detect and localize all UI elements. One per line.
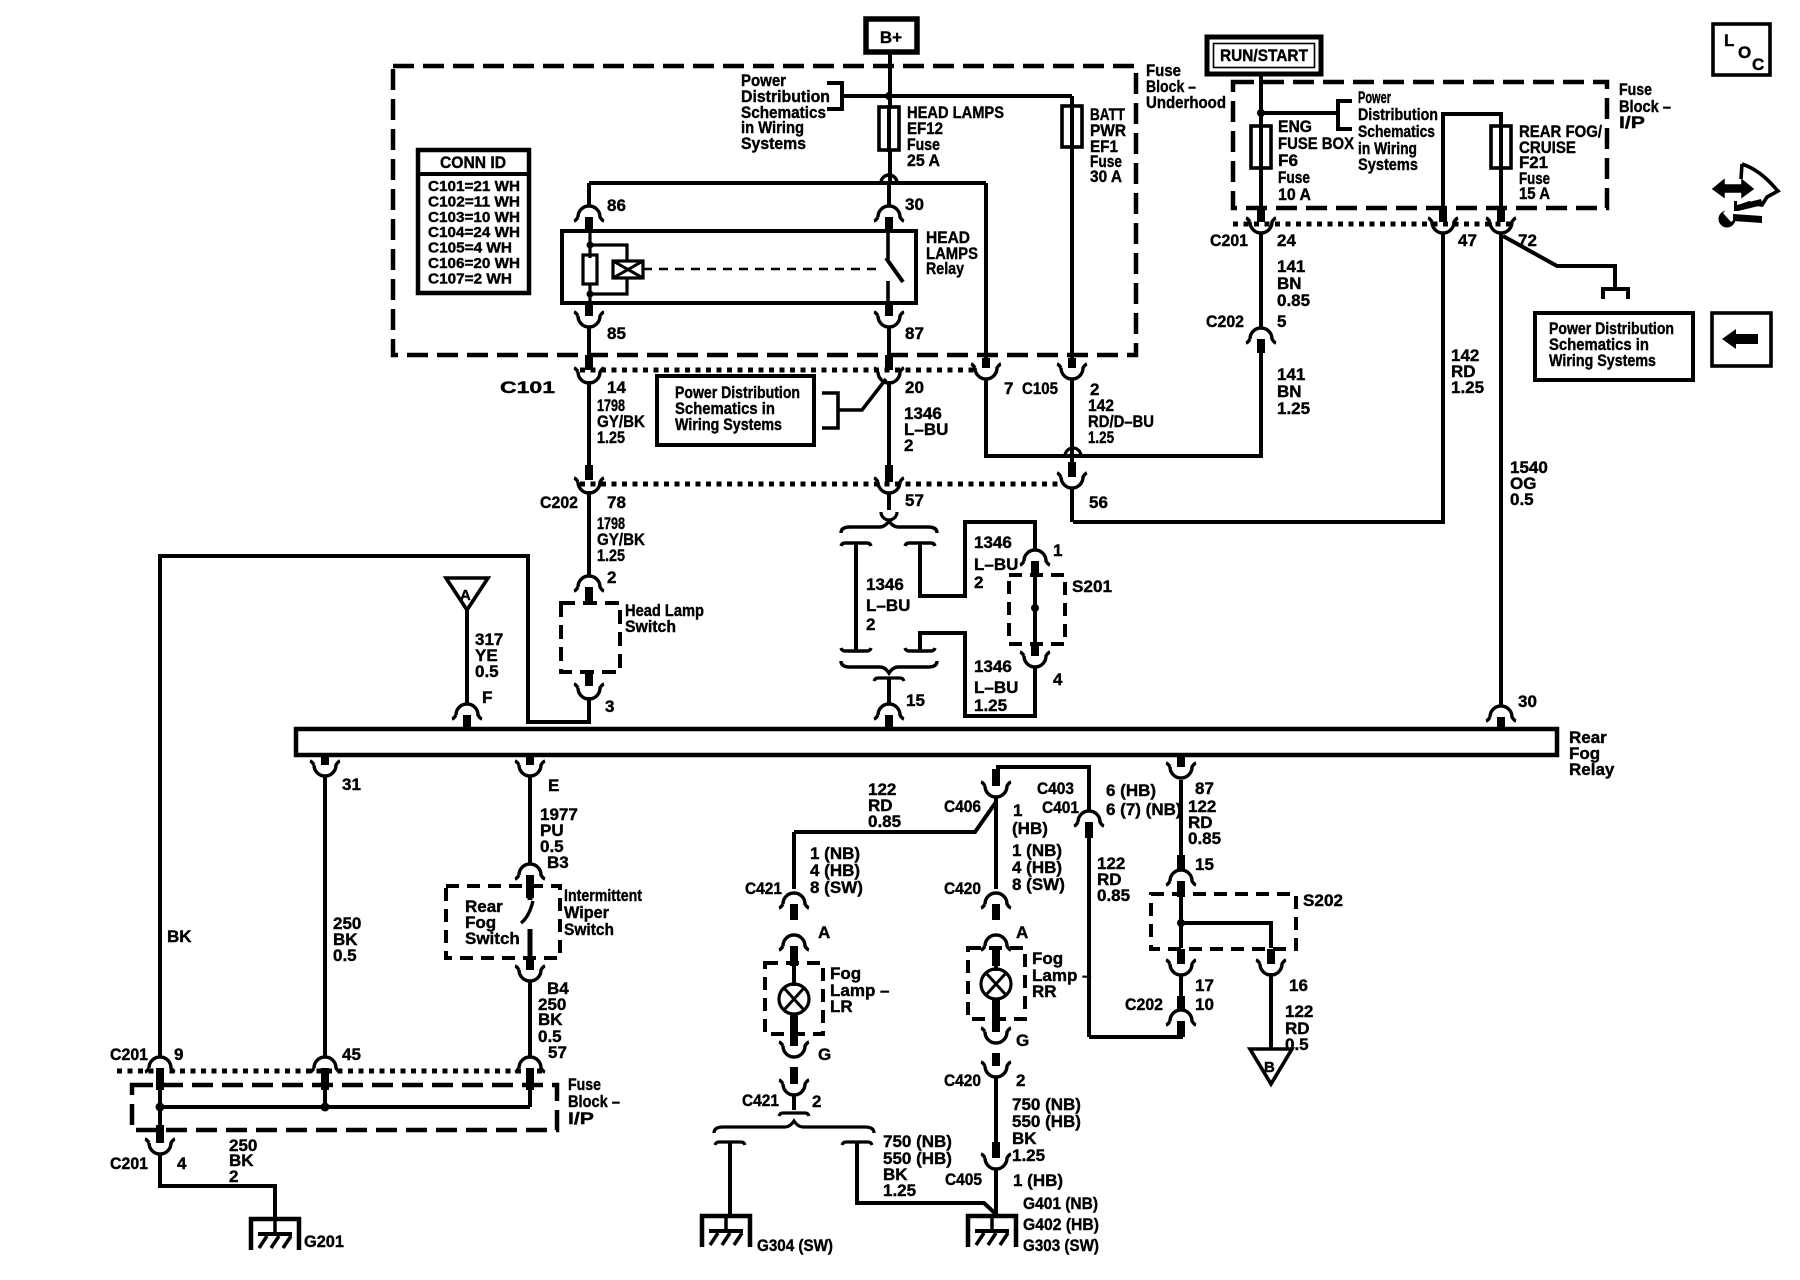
- I/P internal bus wire: [160, 1105, 530, 1109]
- junction dot B+ feed: [885, 92, 893, 100]
- svg-text:C202: C202: [1206, 312, 1244, 331]
- svg-text:Systems: Systems: [1358, 155, 1418, 174]
- connector row C201 dotted line (top): [1233, 222, 1512, 227]
- connector C420 pin 2: [992, 1053, 1000, 1066]
- svg-text:30 A: 30 A: [1090, 167, 1122, 186]
- wire 57 breakout stub: [887, 493, 891, 510]
- left 1346 wire vertical: [854, 543, 858, 651]
- svg-text:C406: C406: [944, 797, 981, 816]
- splice brace fog lamp grounds: [714, 1121, 874, 1133]
- svg-text:45: 45: [342, 1045, 361, 1064]
- wire drop to connector C105 pin 7: [984, 183, 988, 360]
- svg-text:31: 31: [342, 775, 361, 794]
- connector fog lamp RR pin G: [992, 1000, 1000, 1032]
- svg-text:6 (HB): 6 (HB): [1106, 781, 1156, 800]
- svg-text:L–BU: L–BU: [866, 596, 910, 615]
- relay actuation dashed link: [643, 268, 880, 271]
- reference stub bracket to power distribution (right): [1603, 289, 1628, 299]
- connector B4: [526, 958, 534, 970]
- wire 56 down to 142 RD junction: [1070, 488, 1074, 522]
- relay contact pin 87 wire: [886, 281, 890, 303]
- node relay feed junction bump: [881, 175, 897, 183]
- svg-text:L: L: [1724, 31, 1734, 50]
- svg-text:17: 17: [1195, 976, 1214, 995]
- connector fog lamp LR pin A: [779, 935, 809, 950]
- svg-text:Underhood: Underhood: [1146, 93, 1226, 112]
- svg-text:CONN ID: CONN ID: [440, 153, 506, 172]
- connector C201 pin 45: [310, 1057, 340, 1072]
- svg-text:0.85: 0.85: [1097, 886, 1130, 905]
- wire C202-10 to C403 column: [1089, 1022, 1181, 1037]
- wire rear fog fuse feed inverted U: [1443, 114, 1501, 222]
- svg-text:C421: C421: [742, 1091, 779, 1110]
- connector C201 pin 4: [156, 1125, 164, 1143]
- rear fog switch dashed box: [446, 886, 560, 958]
- power distribution schematics reference box (middle): [657, 376, 814, 445]
- junction dot S202: [1177, 919, 1185, 927]
- connector C105 pin 2: [1068, 358, 1076, 368]
- wire EF1 down to connector C105 pin 2: [1070, 147, 1074, 360]
- svg-text:F: F: [482, 688, 492, 707]
- wire 317 YE from A to relay pin F: [465, 609, 469, 704]
- ground G201: [251, 1219, 299, 1250]
- connector row C202 dotted line (middle): [580, 482, 1060, 487]
- wire C201-4 to ground G201: [160, 1153, 275, 1219]
- fog lamp RR bulb: [994, 964, 998, 971]
- connector S202 pin 17: [1177, 949, 1185, 964]
- triangle node A: [446, 578, 488, 610]
- svg-text:2: 2: [607, 568, 616, 587]
- svg-text:RUN/START: RUN/START: [1220, 46, 1309, 65]
- svg-text:24: 24: [1277, 231, 1296, 250]
- svg-text:C201: C201: [1210, 231, 1248, 250]
- reference bracket Power Distribution Schematics (underhood): [827, 83, 887, 109]
- connector C202 pin 78: [574, 478, 604, 493]
- svg-text:1.25: 1.25: [1451, 378, 1484, 397]
- connector pin 85 head lamps relay: [585, 303, 593, 316]
- svg-text:C201: C201: [110, 1154, 148, 1173]
- svg-text:7: 7: [1004, 379, 1013, 398]
- connector 47: [1439, 208, 1447, 222]
- wire 250 BK 0.5 pin 31 to C201-45: [323, 776, 327, 1056]
- svg-text:25 A: 25 A: [907, 151, 940, 170]
- svg-text:2: 2: [812, 1092, 821, 1111]
- svg-text:30: 30: [1518, 692, 1537, 711]
- relay coil bottom wire: [588, 284, 591, 303]
- svg-text:1.25: 1.25: [1012, 1146, 1045, 1165]
- fog lamp RR dashed box: [968, 948, 1025, 1019]
- svg-text:9: 9: [174, 1045, 183, 1064]
- wire 1798 to head lamp switch pin 2: [587, 491, 591, 577]
- svg-text:G: G: [1016, 1031, 1029, 1050]
- svg-text:I/P: I/P: [1619, 113, 1645, 132]
- wire RUN/START to reference bracket: [1261, 111, 1338, 115]
- connector relay pin E (bottom): [526, 755, 534, 765]
- svg-text:BK: BK: [167, 927, 192, 946]
- left ground branch T-bar: [715, 1142, 745, 1145]
- svg-text:8 (SW): 8 (SW): [810, 878, 863, 897]
- connector relay pin 30 (rear fog relay): [1486, 706, 1516, 721]
- relay U1 HEAD LAMPS Relay box: [562, 231, 916, 303]
- svg-text:(HB): (HB): [1012, 819, 1048, 838]
- wire pin 85 to connector C101: [587, 327, 591, 355]
- head lamp switch dashed box: [561, 603, 620, 672]
- relay suppression branch top wire: [590, 245, 627, 262]
- svg-text:2: 2: [866, 615, 875, 634]
- svg-text:57: 57: [548, 1043, 567, 1062]
- svg-text:86: 86: [607, 196, 626, 215]
- relay suppression branch bottom wire: [590, 278, 627, 294]
- svg-text:RR: RR: [1032, 982, 1057, 1001]
- connector row C201 dotted line (bottom): [117, 1069, 545, 1074]
- svg-text:1.25: 1.25: [974, 696, 1007, 715]
- left 1346 wire lower T-bar: [841, 648, 871, 651]
- wire 122 RD 0.5 pin 16 to triangle B: [1269, 973, 1273, 1049]
- wire RUN/START down to fuse F6: [1259, 74, 1263, 126]
- wire splice to relay pin 15: [874, 678, 904, 681]
- svg-text:C: C: [1752, 55, 1764, 74]
- connector S201 pin 1: [1020, 550, 1050, 565]
- right branch upper T-bar: [905, 543, 935, 546]
- connector C202 pin 57 (1346): [885, 468, 893, 482]
- svg-text:78: 78: [607, 493, 626, 512]
- wire relay 87 feed to C406 loop: [996, 767, 1089, 811]
- relay contact blade: [886, 258, 903, 282]
- rear fog switch blade: [528, 888, 533, 900]
- hand/wrench navigation icon: [1738, 164, 1778, 207]
- svg-text:1346: 1346: [866, 575, 904, 594]
- svg-text:0.5: 0.5: [475, 662, 499, 681]
- svg-text:10: 10: [1195, 995, 1214, 1014]
- wire to ground G304: [728, 1142, 732, 1216]
- svg-text:C107=2 WH: C107=2 WH: [428, 270, 512, 287]
- connector 20 (1346 feed): [874, 368, 904, 383]
- svg-text:15: 15: [906, 691, 925, 710]
- wire B+ horizontal feed to fuse EF1: [889, 94, 1072, 98]
- S201 internal wire: [1033, 577, 1037, 644]
- wire B+ down to fuse EF12: [888, 52, 892, 109]
- svg-text:C420: C420: [944, 1071, 981, 1090]
- wire down to connector C421: [792, 832, 796, 889]
- svg-text:C421: C421: [745, 879, 782, 898]
- wire 122 RD 0.65 relay 87 to connector 15: [1179, 780, 1183, 855]
- svg-text:0.85: 0.85: [1277, 291, 1310, 310]
- svg-text:C401: C401: [1042, 798, 1079, 817]
- wire 122 RD 0.85 down right side: [1087, 834, 1091, 1037]
- svg-text:20: 20: [905, 378, 924, 397]
- connector C105 pin 7: [982, 358, 990, 368]
- left 1346 wire upper T-bar: [841, 543, 871, 546]
- connector pin 87 head lamps relay: [885, 303, 893, 316]
- wire head lamp switch output loop to left: [160, 556, 589, 1057]
- fuse EF1 BATT PWR 30A: [1070, 104, 1074, 149]
- svg-text:1.25: 1.25: [597, 428, 625, 447]
- svg-text:5: 5: [1277, 312, 1286, 331]
- svg-text:56: 56: [1089, 493, 1108, 512]
- svg-text:O: O: [1738, 43, 1751, 62]
- relay contact pin 30 stub: [886, 231, 890, 259]
- connector C202 pin 56: [1068, 462, 1076, 477]
- right branch wire to S201 loop: [920, 522, 1035, 596]
- wire EF1 drop: [1070, 96, 1074, 108]
- svg-text:47: 47: [1458, 231, 1477, 250]
- relay suppression X-box: [613, 261, 643, 278]
- junction dot I/P bus middle: [321, 1103, 330, 1112]
- wire pin 87 to connector 20: [887, 327, 891, 355]
- connector C403/C401: [1074, 811, 1104, 826]
- svg-text:Switch: Switch: [564, 920, 614, 939]
- svg-text:0.5: 0.5: [333, 946, 357, 965]
- svg-text:1.25: 1.25: [1277, 399, 1310, 418]
- svg-text:E: E: [548, 776, 559, 795]
- connector relay pin 87 (bottom): [1177, 755, 1185, 767]
- svg-text:14: 14: [607, 378, 626, 397]
- svg-text:0.5: 0.5: [1510, 490, 1534, 509]
- svg-text:8 (SW): 8 (SW): [1012, 875, 1065, 894]
- svg-text:S201: S201: [1072, 577, 1112, 596]
- fog lamp LR dashed box: [765, 963, 823, 1034]
- svg-text:6 (7) (NB): 6 (7) (NB): [1106, 800, 1182, 819]
- connector C202 pin 5: [1246, 328, 1276, 343]
- connector fog lamp RR pin A: [981, 935, 1011, 950]
- junction dot relay coil top: [587, 242, 594, 249]
- svg-text:Wiring Systems: Wiring Systems: [1549, 351, 1656, 370]
- splice S202 dashed box: [1151, 894, 1296, 949]
- reference bracket to connector 20: [822, 379, 886, 428]
- connector C101 pin 14: [574, 368, 604, 383]
- svg-text:10 A: 10 A: [1278, 185, 1311, 204]
- svg-text:G201: G201: [304, 1232, 344, 1251]
- svg-text:C105: C105: [1022, 379, 1058, 398]
- ground G303: [968, 1216, 1016, 1247]
- connector C201 pin 24: [1246, 218, 1276, 233]
- connector C421 pin top: [779, 893, 809, 908]
- svg-text:85: 85: [607, 324, 626, 343]
- svg-text:2: 2: [904, 436, 913, 455]
- wire F21 to connector 72: [1499, 168, 1503, 208]
- connector C405: [981, 1154, 1011, 1169]
- connector S201 pin 4: [1031, 644, 1039, 656]
- fuse block I/P dashed box (top right): [1233, 82, 1607, 208]
- svg-text:1.25: 1.25: [1088, 428, 1114, 447]
- fuse block I/P dashed box (bottom): [132, 1085, 557, 1130]
- svg-text:0.85: 0.85: [1188, 829, 1221, 848]
- junction dot I/P bus left: [156, 1103, 165, 1112]
- fuse block underhood dashed box: [393, 66, 1136, 355]
- svg-text:1: 1: [1013, 801, 1022, 820]
- svg-text:L–BU: L–BU: [974, 678, 1018, 697]
- connector C202 pin 10: [1166, 1010, 1196, 1025]
- svg-text:87: 87: [905, 324, 924, 343]
- svg-text:Wiring Systems: Wiring Systems: [675, 415, 782, 434]
- svg-text:S202: S202: [1303, 891, 1343, 910]
- connector 15 (S202 feed): [1166, 870, 1196, 885]
- power node RUN/START box: [1207, 37, 1321, 74]
- svg-text:B+: B+: [880, 28, 902, 47]
- wire C405 to ground G303: [994, 1169, 998, 1216]
- svg-text:30: 30: [905, 195, 924, 214]
- back arrow box icon: [1712, 313, 1771, 366]
- power node B+ box: [866, 19, 917, 52]
- svg-text:C420: C420: [944, 879, 981, 898]
- connector fog lamp LR pin G: [790, 1015, 798, 1046]
- CONN ID table box: [418, 150, 529, 293]
- wire C420-2 to C405: [994, 1077, 998, 1142]
- svg-text:0.5: 0.5: [1285, 1035, 1309, 1054]
- relay coil resistor symbol: [583, 255, 597, 284]
- svg-text:A: A: [818, 923, 830, 942]
- svg-text:I/P: I/P: [568, 1109, 594, 1128]
- wire 141 BN 0.85 connector 24 to C202 pin 5: [1259, 233, 1263, 328]
- connector C201 pin 57: [515, 1057, 545, 1072]
- connector C201 pin 9: [145, 1057, 175, 1072]
- svg-text:G402 (HB): G402 (HB): [1023, 1215, 1099, 1234]
- connector head lamp switch pin 2: [574, 576, 604, 591]
- wire drop to relay pin 86: [587, 183, 591, 206]
- ground G304: [702, 1216, 750, 1247]
- splice brace upper: [841, 521, 937, 533]
- splice brace lower: [841, 661, 937, 673]
- svg-text:C403: C403: [1037, 779, 1074, 798]
- svg-text:Relay: Relay: [926, 259, 964, 278]
- connector pin 86 head lamps relay: [574, 206, 604, 221]
- connector C420 pin top: [981, 893, 1011, 908]
- svg-text:C201: C201: [110, 1045, 148, 1064]
- svg-text:1346: 1346: [974, 657, 1012, 676]
- right ground branch T-bar: [842, 1142, 872, 1145]
- svg-text:3: 3: [605, 697, 614, 716]
- svg-text:16: 16: [1289, 976, 1308, 995]
- connector head lamp switch pin 3: [585, 672, 593, 686]
- svg-text:1 (HB): 1 (HB): [1013, 1171, 1063, 1190]
- wire 141 BN 1.25 down from C202-5: [1259, 353, 1263, 458]
- wire 142 RD horizontal to pin 56 wire: [1073, 520, 1443, 524]
- svg-text:G: G: [818, 1045, 831, 1064]
- LOC box icon: [1713, 24, 1770, 75]
- svg-text:A: A: [1016, 923, 1028, 942]
- reference bracket Power Distribution Schematics (I/P): [1338, 101, 1352, 129]
- fuse F6 ENG FUSE BOX 10A: [1259, 124, 1263, 170]
- wire 1977 PU pin E to B3: [528, 776, 532, 864]
- wire C406 down to C420: [994, 797, 998, 889]
- wire 72 reference branch diagonal: [1503, 236, 1615, 290]
- wire pin 17 to C202-10: [1179, 975, 1183, 996]
- connector B3: [515, 864, 545, 879]
- right branch lower T-bar: [905, 648, 935, 651]
- wire 1540 OG 0.5 from connector 72 to relay pin 30: [1499, 233, 1503, 706]
- connector 72: [1486, 218, 1516, 233]
- fuse EF12 HEAD LAMPS 25A: [887, 105, 891, 152]
- junction dot relay coil bottom: [587, 291, 594, 298]
- wire EF12 to relay feed node: [888, 150, 892, 183]
- connector S202 pin 16: [1267, 949, 1275, 964]
- reference box Power Distribution Schematics in Wiring Systems (right): [1535, 313, 1693, 380]
- wire C421-2 breakout: [792, 1095, 796, 1110]
- svg-text:15 A: 15 A: [1519, 184, 1550, 203]
- svg-text:2: 2: [974, 573, 983, 592]
- svg-text:L–BU: L–BU: [974, 555, 1018, 574]
- svg-text:A: A: [460, 587, 471, 604]
- svg-text:2: 2: [1016, 1071, 1025, 1090]
- svg-text:B: B: [1264, 1059, 1275, 1076]
- connector C421 pin 2: [790, 1067, 798, 1084]
- svg-text:1.25: 1.25: [883, 1181, 916, 1200]
- junction dot S201: [1031, 604, 1039, 612]
- relay coil circuit wire pin86: [588, 231, 591, 258]
- connector relay pin 15 (top): [874, 704, 904, 719]
- wire 142 RD 1.25 from connector 47 down: [1441, 233, 1445, 524]
- fog lamp LR bulb: [792, 964, 796, 986]
- wire B4 to C201-57: [528, 981, 532, 1056]
- wire F6 to connector C201 pin 24: [1259, 168, 1263, 208]
- connector relay pin F: [452, 704, 482, 719]
- connector row C101 dotted line: [580, 368, 975, 373]
- triangle node B: [1250, 1049, 1292, 1084]
- svg-text:1: 1: [1053, 541, 1062, 560]
- connector relay pin 31 (bottom): [321, 755, 329, 765]
- splice S201 dashed box: [1009, 575, 1065, 644]
- svg-text:4: 4: [177, 1154, 187, 1173]
- rear fog relay bar: [296, 729, 1557, 755]
- svg-text:Systems: Systems: [741, 134, 806, 153]
- svg-text:Switch: Switch: [625, 617, 676, 636]
- svg-text:2: 2: [229, 1167, 238, 1186]
- svg-text:C202: C202: [1125, 995, 1163, 1014]
- svg-text:C101: C101: [500, 378, 555, 397]
- svg-text:Relay: Relay: [1569, 760, 1615, 779]
- svg-text:G303 (SW): G303 (SW): [1023, 1236, 1099, 1255]
- svg-text:87: 87: [1195, 779, 1214, 798]
- wire C105-7 down and right: [986, 379, 1261, 456]
- junction dot RUN/START branch: [1257, 109, 1265, 117]
- wire 1346 from 20 to 57: [887, 381, 891, 465]
- svg-text:57: 57: [905, 491, 924, 510]
- svg-text:4: 4: [1053, 670, 1063, 689]
- svg-text:C405: C405: [945, 1170, 982, 1189]
- junction bump at 142 RD join: [1065, 448, 1081, 456]
- wire drop to relay pin 30: [887, 183, 891, 206]
- wire S201 pin 4 return loop: [920, 633, 1035, 716]
- wire C105-2 down to junction: [1070, 379, 1074, 477]
- svg-text:0.85: 0.85: [868, 812, 901, 831]
- connector pin 30 head lamps relay: [874, 206, 904, 221]
- wire right branch to G303: [857, 1142, 998, 1216]
- svg-text:15: 15: [1195, 855, 1214, 874]
- S202 internal wires: [1179, 897, 1183, 948]
- svg-text:LR: LR: [830, 997, 853, 1016]
- wire 122 RD 0.85 horizontal to left fog lamp: [794, 802, 996, 832]
- svg-text:B3: B3: [547, 853, 569, 872]
- wire 1798 GY/BK to C202-78: [587, 381, 591, 465]
- svg-text:G401 (NB): G401 (NB): [1023, 1194, 1098, 1213]
- svg-text:Switch: Switch: [465, 929, 520, 948]
- svg-text:G304 (SW): G304 (SW): [757, 1236, 833, 1255]
- svg-text:1.25: 1.25: [597, 546, 625, 565]
- svg-text:C202: C202: [540, 493, 578, 512]
- wire relay feed horizontal: [589, 181, 986, 185]
- connector C406 stub: [992, 769, 1000, 786]
- CONN ID table separator: [418, 172, 529, 176]
- svg-text:1346: 1346: [974, 533, 1012, 552]
- I/P bus drops: [158, 1090, 162, 1125]
- fuse F21 REAR FOG/CRUISE 15A: [1499, 124, 1503, 170]
